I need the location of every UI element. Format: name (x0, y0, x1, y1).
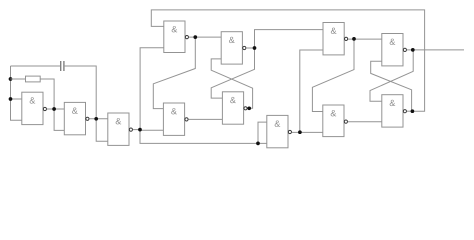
wire: U12 output bubble lead (407, 110, 413, 112)
wire: resistor left lead (11, 78, 26, 80)
gate master latch NAND U6 (221, 32, 246, 64)
wire: U8 output to U10 in2 (292, 131, 323, 133)
wire: capacitor left lead (11, 65, 61, 67)
wire: U6 output riser to U9 in1 (255, 30, 324, 48)
gate clock inverter NAND U8 (267, 115, 292, 147)
node: U7 output junction (247, 106, 251, 110)
wire: U1 output to U2 in1 (47, 108, 65, 110)
wire: U11 output cross diagonal to U12 in1 (370, 50, 413, 101)
node: U12 output junction (411, 109, 415, 113)
gate oscillator NAND inverter U1 (22, 92, 47, 124)
gate slave latch NAND U11 (382, 34, 407, 66)
wire: U9 output drop and diagonal to U10 in1 (312, 39, 354, 112)
gate master steering NAND U5 (163, 103, 188, 135)
wire: U7 output cross riser and diagonal to U6 in2 (211, 59, 252, 108)
wire: U8 tied-input bracket (258, 122, 267, 143)
wire: capacitor right lead down to U2 output node and U3 in2 (64, 66, 108, 141)
node: U11 output junction (411, 48, 415, 52)
wire: U6 output cross diagonal to U7 in1 (211, 48, 254, 98)
node: U9 output junction (352, 37, 356, 41)
wire: U1 input-1 stub (11, 98, 22, 100)
gate slave steering NAND U10 (323, 105, 348, 137)
node: U2 output junction (94, 117, 98, 121)
wire: U4 output drop and diagonal to U5 in1 (153, 37, 195, 109)
wire: U4 output to U6 in1 (189, 36, 221, 38)
wire: Q-bar feedback rail from U12 output up and across to U4 in1 (151, 10, 424, 111)
node: U4 output junction (193, 35, 197, 39)
node: U6 output junction (253, 46, 257, 50)
wire: U9 output to U11 in1 (348, 38, 382, 40)
node: clock junction (138, 128, 142, 132)
capacitor C1 (60, 61, 62, 71)
wire: clock riser to U4 in2 (140, 48, 164, 130)
wire: U10 output to U12 in2 (348, 121, 382, 123)
wire: U12 output cross riser and diagonal to U11 in2 (371, 61, 413, 111)
wire: resistor right lead down to U1 output node and U2 in2 (40, 79, 64, 130)
wire: clock drop and bottom rail to U8 (140, 130, 267, 144)
gate oscillator NAND inverter U2 (64, 102, 89, 134)
gate master latch NAND U7 (222, 92, 247, 124)
gate clock buffer NAND U3 (108, 113, 133, 145)
gate slave steering NAND U9 (323, 23, 348, 55)
resistor R1 (26, 76, 41, 82)
wire: oscillator input-node left rail (11, 66, 22, 120)
wire: U6 output bubble lead (246, 47, 254, 49)
node: resistor junction on input rail (9, 77, 13, 81)
wire: clock to U5 in2 (140, 129, 163, 131)
wire: U5 output to U7 in2 (188, 118, 222, 120)
node: U8 input bracket junction (256, 142, 260, 146)
wire: U11 output rail Q to right edge (407, 49, 464, 51)
wire: U8 output riser to U9 in2 (300, 50, 323, 132)
node: U1 input junction on input rail (9, 97, 13, 101)
wire: U3 output to clock node (133, 129, 140, 131)
gate master steering NAND U4 (164, 21, 189, 53)
node: U1 output junction (52, 107, 56, 111)
gate slave latch NAND U12 (382, 95, 407, 127)
wire: U2 output to U3 in1 (89, 118, 108, 120)
node: U8 output junction (298, 130, 302, 134)
